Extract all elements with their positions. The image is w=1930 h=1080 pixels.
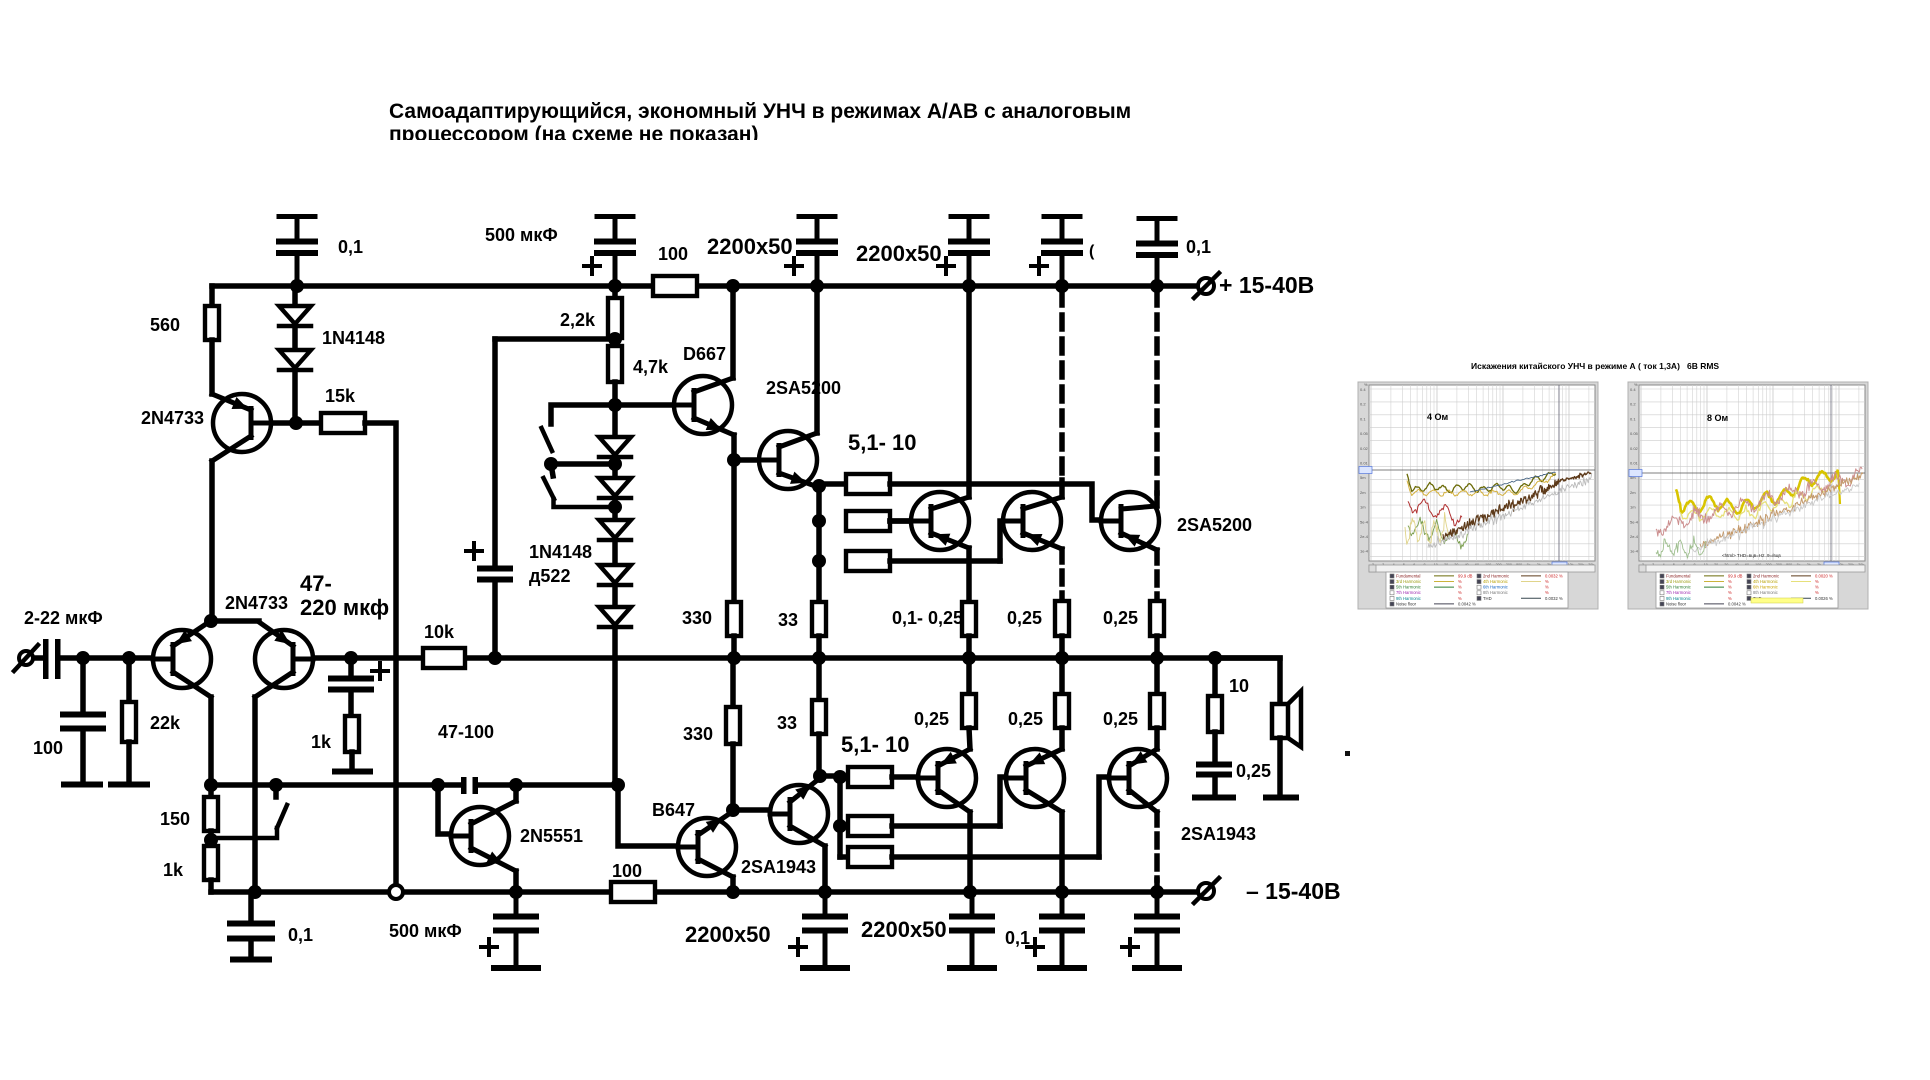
wire D667 base xyxy=(615,402,695,408)
svg-text:2N4733: 2N4733 xyxy=(225,593,288,613)
wire bias branch vertical xyxy=(492,582,498,658)
node output line / bias branch xyxy=(488,651,502,665)
diode 1N4148 D1 top xyxy=(279,286,311,326)
diode string D5 xyxy=(599,587,631,785)
svg-text:0.0042 %: 0.0042 % xyxy=(1728,601,1746,606)
node diode string tap 1 xyxy=(608,457,622,471)
resistor 5,1-10 R1 upper xyxy=(819,474,890,494)
svg-text:3rd Harmonic: 3rd Harmonic xyxy=(1666,579,1691,584)
svg-text:2SA1943: 2SA1943 xyxy=(1181,824,1256,844)
svg-text:2m: 2m xyxy=(1630,490,1636,495)
svg-text:0,25: 0,25 xyxy=(1103,608,1138,628)
node lower R1 tap xyxy=(833,770,847,784)
chart x-axis labels 4 Ом xyxy=(1372,563,1594,567)
svg-text:10k: 10k xyxy=(424,622,455,642)
chart panel 8 Ом xyxy=(1628,382,1868,609)
node 2,2k / 4,7k xyxy=(608,332,622,346)
capacitor 100 input shunt xyxy=(63,658,103,782)
svg-text:%: % xyxy=(1458,585,1462,590)
wire top supply rail xyxy=(212,283,653,289)
resistor 150 xyxy=(204,785,218,846)
node bottom rail / T2 column xyxy=(1055,885,1069,899)
node feedback left xyxy=(204,778,218,792)
resistor 22k input xyxy=(122,658,136,782)
capacitor 0,25 zobel xyxy=(1199,765,1229,796)
node output line / zobel xyxy=(1208,651,1222,665)
ground bar under speaker xyxy=(1266,795,1296,801)
svg-text:0,1: 0,1 xyxy=(1005,928,1030,948)
svg-text:0,1: 0,1 xyxy=(288,925,313,945)
svg-text:2N5551: 2N5551 xyxy=(520,826,583,846)
wire input to Q3 base xyxy=(60,655,173,661)
wire T1 base xyxy=(890,518,932,524)
node output line / 47-220uF xyxy=(344,651,358,665)
svg-text:0.0032 %: 0.0032 % xyxy=(1545,596,1563,601)
svg-text:%: % xyxy=(1458,596,1462,601)
svg-text:%: % xyxy=(1815,590,1819,595)
wire 2N5551 emitter to rail xyxy=(513,871,519,892)
node feedback / 2N5551 collector xyxy=(509,778,523,792)
svg-text:10: 10 xyxy=(1229,676,1249,696)
svg-text:9th Harmonic: 9th Harmonic xyxy=(1396,596,1421,601)
svg-text:0.0020 %: 0.0020 % xyxy=(1815,573,1833,578)
resistor 5,1-10 R2 upper xyxy=(846,511,932,531)
svg-text:%: % xyxy=(1815,579,1819,584)
switch S3 xyxy=(211,785,287,838)
svg-text:6th Harmonic: 6th Harmonic xyxy=(1753,585,1778,590)
svg-text:2,2k: 2,2k xyxy=(560,310,596,330)
node output line / T1 column xyxy=(962,651,976,665)
svg-text:2nd Harmonic: 2nd Harmonic xyxy=(1483,573,1509,578)
diode string D3 xyxy=(599,501,631,540)
svg-text:0.2: 0.2 xyxy=(1360,402,1366,407)
wire T2 lower collector xyxy=(1059,812,1065,892)
switch S1 xyxy=(542,428,553,451)
svg-text:1N4148: 1N4148 xyxy=(322,328,385,348)
svg-text:8th Harmonic: 8th Harmonic xyxy=(1753,590,1778,595)
resistor 5,1-10 R3 upper xyxy=(846,551,1000,571)
node lower driver emitter xyxy=(813,769,827,783)
wire feedback line left xyxy=(211,782,462,788)
svg-text:0,1: 0,1 xyxy=(1186,237,1211,257)
wire T3 collector solid xyxy=(1154,493,1160,506)
capacitor 500uF top xyxy=(597,214,633,219)
negative supply terminal -15-40V xyxy=(1194,878,1219,903)
wire T3 collector dashed xyxy=(1154,291,1160,493)
svg-text:7th Harmonic: 7th Harmonic xyxy=(1666,590,1691,595)
svg-text:0,25: 0,25 xyxy=(914,709,949,729)
wire upper driver collector xyxy=(814,286,820,433)
node top rail / driver collector cap xyxy=(810,279,824,293)
node output line / 330 xyxy=(727,651,741,665)
svg-text:%: % xyxy=(1728,585,1732,590)
svg-text:– 15-40В: – 15-40В xyxy=(1246,878,1341,904)
svg-text:0,25: 0,25 xyxy=(1236,761,1271,781)
svg-text:500 мкФ: 500 мкФ xyxy=(485,225,558,245)
svg-text:Fundamental: Fundamental xyxy=(1666,573,1691,578)
svg-text:0.1: 0.1 xyxy=(1630,416,1636,421)
node bottom rail / T3 column xyxy=(1150,885,1164,899)
svg-text:%: % xyxy=(1634,382,1638,387)
svg-text:%: % xyxy=(1728,579,1732,584)
node D667 emitter / driver base xyxy=(727,453,741,467)
capacitor 0,1 bottom left xyxy=(230,892,272,960)
ground bar under zobel xyxy=(1195,795,1233,801)
svg-text:D667: D667 xyxy=(683,344,726,364)
svg-text:%: % xyxy=(1815,585,1819,590)
resistor 5,1-10 R1 lower xyxy=(840,767,940,787)
svg-text:%: % xyxy=(1458,590,1462,595)
wire R2 lower to T2 base xyxy=(1000,777,1027,826)
wire diode string to B647 base xyxy=(618,785,699,846)
wire bottom supply rail xyxy=(211,889,611,895)
svg-text:4,7k: 4,7k xyxy=(633,357,669,377)
diode string D4 xyxy=(599,542,631,585)
ground bar under capacitor 100 xyxy=(64,782,100,788)
transistor 2SA1943 T2 lower xyxy=(1006,749,1064,812)
wire D667 emitter down xyxy=(731,435,737,460)
resistor 0,25 emitter T2 lower xyxy=(1055,658,1069,749)
wire feedback line right xyxy=(478,782,618,788)
wire output line xyxy=(465,655,1280,661)
svg-text:2SA1943: 2SA1943 xyxy=(741,857,816,877)
node Q1 base xyxy=(289,416,303,430)
svg-text:4th Harmonic: 4th Harmonic xyxy=(1753,579,1778,584)
node top rail / 0,1 cap xyxy=(290,279,304,293)
svg-text:%: % xyxy=(1364,382,1368,387)
capacitor 2200x50 first xyxy=(799,214,835,219)
capacitor 0,1 top right xyxy=(1139,216,1175,221)
svg-text:2e-4: 2e-4 xyxy=(1360,534,1369,539)
resistor 33 upper xyxy=(812,602,826,658)
capacitor 2200x50 bottom second xyxy=(1060,892,1065,914)
node bottom rail / T1 column xyxy=(963,885,977,899)
resistor 1k (feedback) xyxy=(204,846,218,892)
chart gridlines 8 Ом xyxy=(1639,385,1865,561)
node diff pair tail xyxy=(204,614,218,628)
svg-text:47-: 47- xyxy=(300,571,332,596)
speaker xyxy=(1272,691,1301,795)
svg-text:560: 560 xyxy=(150,315,180,335)
svg-text:0.05: 0.05 xyxy=(1630,431,1639,436)
svg-text:(: ( xyxy=(1089,243,1095,260)
transistor 2SA1943 T1 lower xyxy=(918,749,976,812)
svg-text:0.1: 0.1 xyxy=(1360,416,1366,421)
svg-text:%: % xyxy=(1728,596,1732,601)
svg-text:99.9 dB: 99.9 dB xyxy=(1728,573,1743,578)
transistor Q1 2N4733 current source xyxy=(212,394,271,461)
input terminal xyxy=(14,645,38,671)
capacitor 500uF bottom (2N5551 emitter) xyxy=(514,892,519,914)
chart traces 8 Ом xyxy=(1656,467,1863,558)
svg-text:2e-4: 2e-4 xyxy=(1630,534,1639,539)
svg-text:0.0042 %: 0.0042 % xyxy=(1458,601,1476,606)
positive supply terminal +15-40V xyxy=(1194,273,1219,298)
svg-text:0.01: 0.01 xyxy=(1630,461,1639,466)
wire T2 emitter dashed xyxy=(1059,549,1065,601)
node base resistor tap R3 xyxy=(812,554,826,568)
transistor 2SA5200 T1 xyxy=(911,492,969,550)
wire lower driver base xyxy=(733,807,791,813)
resistor 10 zobel xyxy=(1208,658,1222,762)
resistor 15k xyxy=(296,413,365,433)
svg-text:Noise floor: Noise floor xyxy=(1666,601,1687,606)
svg-text:9th Harmonic: 9th Harmonic xyxy=(1666,596,1691,601)
node top rail / T1 column xyxy=(962,279,976,293)
capacitor bias electrolytic xyxy=(466,339,510,580)
svg-text:0.4: 0.4 xyxy=(1630,387,1636,392)
svg-text:2nd Harmonic: 2nd Harmonic xyxy=(1753,573,1779,578)
termination bar under 1k xyxy=(335,769,370,775)
chart scrollbar 4 Ом xyxy=(1369,565,1595,572)
transistor Q3 2N4733 diff left xyxy=(153,622,211,697)
resistor 5,1-10 R2 lower xyxy=(840,816,1000,836)
svg-text:Fundamental: Fundamental xyxy=(1396,573,1421,578)
svg-text:500 мкФ: 500 мкФ xyxy=(389,921,462,941)
wire driver emitter chain xyxy=(816,486,822,602)
svg-text:1e-4: 1e-4 xyxy=(1360,549,1369,554)
svg-text:2m: 2m xyxy=(1360,490,1366,495)
transistor 2SA5200 T3 xyxy=(1101,492,1159,550)
wire 15k to bottom rail (vertical x=396) xyxy=(365,423,396,885)
transistor 2SA1943 driver xyxy=(770,778,828,846)
svg-text:5,1- 10: 5,1- 10 xyxy=(841,732,910,757)
svg-text:22k: 22k xyxy=(150,713,181,733)
resistor 5,1-10 R3 lower xyxy=(840,847,1099,867)
wire rail corner down to 560 xyxy=(209,286,215,306)
resistor 0,25 emitter T3 xyxy=(1150,601,1164,658)
node switch S3 tap xyxy=(269,778,283,792)
resistor 33 lower xyxy=(812,658,826,776)
node driver emitter xyxy=(812,479,826,493)
svg-text:8th Harmonic: 8th Harmonic xyxy=(1483,590,1508,595)
wire R3 to T2 base xyxy=(1000,521,1024,561)
wire upper 330 feed xyxy=(731,460,737,602)
diode 1N4148 D2 top xyxy=(279,327,311,423)
wire Q1 base xyxy=(252,420,296,426)
svg-text:47-100: 47-100 xyxy=(438,722,494,742)
transistor 2N5551 xyxy=(451,801,516,871)
resistor 100 (bottom rail) xyxy=(611,882,655,902)
svg-text:0,1: 0,1 xyxy=(338,237,363,257)
node bottom rail / B647 xyxy=(726,885,740,899)
node top rail / 500uF cap xyxy=(608,279,622,293)
svg-text:0,25: 0,25 xyxy=(1008,709,1043,729)
wire D667 collector xyxy=(730,286,736,378)
chart gridlines 4 Ом xyxy=(1369,385,1595,561)
svg-text:THD: THD xyxy=(1483,596,1492,601)
wire T1 lower collector xyxy=(967,812,973,892)
svg-text:1N4148: 1N4148 xyxy=(529,542,592,562)
svg-text:+ 15-40В: + 15-40В xyxy=(1219,272,1314,298)
svg-text:5e-4: 5e-4 xyxy=(1360,519,1369,524)
svg-text:Noise floor: Noise floor xyxy=(1396,601,1417,606)
svg-text:%: % xyxy=(1458,579,1462,584)
svg-text:7th Harmonic: 7th Harmonic xyxy=(1396,590,1421,595)
svg-text:99.9 dB: 99.9 dB xyxy=(1458,573,1473,578)
chart cursor lines 4 Ом xyxy=(1359,385,1595,569)
resistor 4,7k xyxy=(608,339,622,405)
node top rail / T2 column xyxy=(1055,279,1069,293)
transistor D667 xyxy=(674,376,734,435)
svg-text:5e-4: 5e-4 xyxy=(1630,519,1639,524)
resistor 560 xyxy=(205,306,219,340)
wire input line xyxy=(33,655,43,661)
node diode string bottom / feedback xyxy=(611,778,625,792)
svg-text:330: 330 xyxy=(682,608,712,628)
node output line / 33 xyxy=(812,651,826,665)
svg-text:0.4: 0.4 xyxy=(1360,387,1366,392)
resistor 0,25 emitter T3 lower xyxy=(1150,658,1164,749)
transistor 2SA1943 T3 lower xyxy=(1109,749,1167,812)
wire B647 collector to rail xyxy=(730,877,736,892)
svg-text:%: % xyxy=(1545,590,1549,595)
svg-text:2-22 мкФ: 2-22 мкФ xyxy=(24,608,103,628)
svg-text:15k: 15k xyxy=(325,386,356,406)
wire Q3 collector to feedback node xyxy=(208,697,214,785)
wire bottom supply rail right part xyxy=(655,889,1196,895)
svg-text:2N4733: 2N4733 xyxy=(141,408,204,428)
chart x-axis labels 8 Ом xyxy=(1642,563,1864,567)
wire to speaker xyxy=(1215,658,1280,704)
node Q4 collector bottom rail xyxy=(248,885,262,899)
node top rail / T3 column xyxy=(1150,279,1164,293)
node D667 base / diode string xyxy=(608,398,622,412)
wire T3 lower collector solid xyxy=(1154,880,1160,892)
svg-text:2SA5200: 2SA5200 xyxy=(1177,515,1252,535)
svg-text:8 Ом: 8 Ом xyxy=(1707,413,1729,423)
svg-text:100: 100 xyxy=(658,244,688,264)
svg-text:%: % xyxy=(1545,579,1549,584)
diode string D1 (1N4148/d522) xyxy=(599,405,631,457)
wire R3 lower to T3 base xyxy=(1099,777,1131,857)
wire 2N5551 collector xyxy=(513,785,519,801)
svg-text:330: 330 xyxy=(683,724,713,744)
svg-text:6th Harmonic: 6th Harmonic xyxy=(1483,585,1508,590)
chart y-axis labels 8 Ом xyxy=(1630,382,1639,554)
wire 560 to Q1 emitter xyxy=(209,340,215,394)
wire lower driver collector xyxy=(822,846,828,892)
svg-text:0.01: 0.01 xyxy=(1360,461,1369,466)
resistor 10k xyxy=(423,648,465,668)
svg-text:5m: 5m xyxy=(1360,475,1366,480)
node base resistor tap R2 xyxy=(812,514,826,528)
capacitor 0,1 top left xyxy=(279,214,315,219)
chart scrollbar 8 Ом xyxy=(1639,565,1865,572)
svg-text:150: 150 xyxy=(160,809,190,829)
resistor 0,25 emitter T2 xyxy=(1055,601,1069,658)
svg-text:4 Ом: 4 Ом xyxy=(1427,412,1449,422)
chart traces 4 Ом xyxy=(1405,472,1592,549)
svg-text:3rd Harmonic: 3rd Harmonic xyxy=(1396,579,1421,584)
wire driver base xyxy=(734,457,780,463)
capacitor 2200x50 third xyxy=(1044,214,1080,219)
transistor 2SA5200 driver xyxy=(759,431,818,489)
chart y-axis labels 4 Ом xyxy=(1360,382,1369,554)
svg-text:%: % xyxy=(1545,585,1549,590)
wire T1 collector xyxy=(966,286,972,497)
wire top supply rail right part xyxy=(697,283,1197,289)
node 150/1k junction xyxy=(204,833,218,847)
diode string D2 xyxy=(599,460,631,498)
ground bar under 22k xyxy=(111,782,147,788)
svg-text:2200x50: 2200x50 xyxy=(685,922,771,947)
resistor 330 lower xyxy=(726,658,740,810)
wire Q1 collector down to tail xyxy=(209,461,215,621)
svg-text:%: % xyxy=(1728,590,1732,595)
capacitor 2200x50 bottom first xyxy=(823,892,828,914)
svg-text:2200x50: 2200x50 xyxy=(856,241,942,266)
node top rail / D667 collector xyxy=(726,279,740,293)
switch S2 xyxy=(544,464,616,507)
svg-text:100: 100 xyxy=(33,738,63,758)
svg-text:5th Harmonic: 5th Harmonic xyxy=(1396,585,1421,590)
transistor B647 xyxy=(678,812,736,877)
node switch junction xyxy=(544,457,558,471)
node input B xyxy=(122,651,136,665)
node output line / T3 column xyxy=(1150,651,1164,665)
wire T3 emitter dashed xyxy=(1154,550,1160,601)
resistor 100 (top rail) xyxy=(653,276,697,296)
title text xyxy=(380,100,1131,166)
wire base node to switch S1 xyxy=(551,405,615,424)
transistor 2SA5200 T2 xyxy=(1003,492,1062,550)
wire Q4 base to 10k xyxy=(293,655,423,661)
svg-text:1k: 1k xyxy=(163,860,184,880)
wire T3 lower collector dashed xyxy=(1154,812,1160,880)
svg-text:Самоадаптирующийся, экономный: Самоадаптирующийся, экономный УНЧ в режи… xyxy=(389,100,1131,123)
resistor 0,1-0,25 emitter T1 xyxy=(962,602,976,658)
node feedback / 2N5551 base xyxy=(431,778,445,792)
svg-text:5th Harmonic: 5th Harmonic xyxy=(1666,585,1691,590)
svg-text:33: 33 xyxy=(778,610,798,630)
svg-text:5,1- 10: 5,1- 10 xyxy=(848,430,917,455)
resistor 1k (47-220 network) xyxy=(345,716,359,769)
node bottom rail / lower driver xyxy=(818,885,832,899)
svg-text:100: 100 xyxy=(612,861,642,881)
capacitor 2-22uF input xyxy=(43,639,61,679)
capacitor 2200x50 second xyxy=(951,214,987,219)
wire switch junction to diode string xyxy=(551,461,615,467)
wire T1 emitter xyxy=(966,548,972,602)
svg-text:2200x50: 2200x50 xyxy=(707,234,793,259)
svg-text:1k: 1k xyxy=(311,732,332,752)
chart legend 4 Ом xyxy=(1386,572,1568,608)
svg-text:0,25: 0,25 xyxy=(1103,709,1138,729)
node output line / T2 column xyxy=(1055,651,1069,665)
wire R1 to T3 base xyxy=(890,484,1122,520)
wire bias top link xyxy=(495,336,615,342)
svg-text:Искажения китайского УНЧ в реж: Искажения китайского УНЧ в режиме А ( то… xyxy=(1471,361,1719,371)
resistor 0,25 emitter T1 lower xyxy=(962,658,976,749)
open node on bottom rail xyxy=(389,885,403,899)
svg-text:4th Harmonic: 4th Harmonic xyxy=(1483,579,1508,584)
wire 2N5551 base vertical xyxy=(438,785,472,834)
resistor 330 upper xyxy=(727,602,741,658)
node input A xyxy=(76,651,90,665)
transistor Q4 2N4733 diff right xyxy=(255,622,313,697)
wire lower resistor feed xyxy=(820,776,840,857)
resistor 2,2k xyxy=(608,286,622,338)
svg-text:0.02: 0.02 xyxy=(1630,446,1639,451)
svg-text:0.0032 %: 0.0032 % xyxy=(1545,573,1563,578)
chart panel 4 Ом xyxy=(1358,382,1598,609)
svg-text:1m: 1m xyxy=(1360,505,1366,510)
capacitor 47-220uF xyxy=(331,658,388,716)
svg-text:0.02: 0.02 xyxy=(1360,446,1369,451)
capacitor 47-100 feedback xyxy=(461,777,478,794)
wire T2 collector dashed xyxy=(1059,291,1065,480)
